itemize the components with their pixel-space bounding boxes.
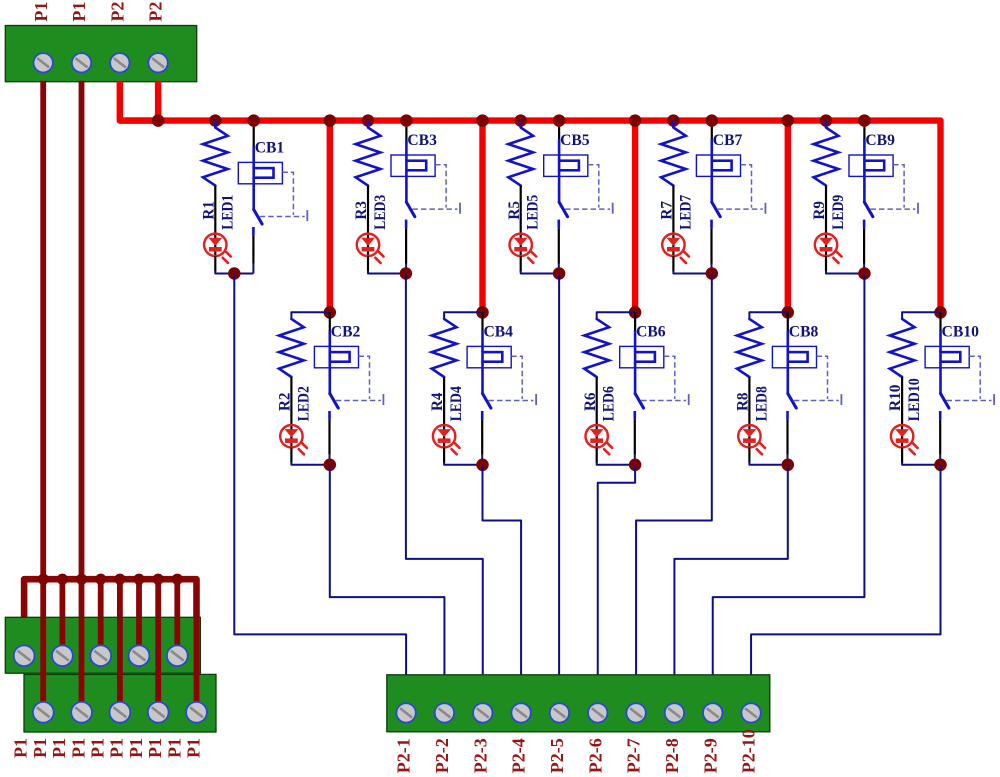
- wire breaker CB3 lower pin: [405, 220, 408, 229]
- wire resistor R8 to LED8: [748, 377, 750, 425]
- terminal block P2 bottom-middle: [387, 675, 770, 732]
- breaker CB10 trip linkage (dashed): [969, 356, 980, 399]
- junction bus to R1: [209, 114, 222, 127]
- wire resistor R9 top pin: [825, 121, 828, 128]
- junction bus to R7: [667, 114, 680, 127]
- wire breaker CB6 lower pin: [633, 411, 636, 420]
- svg-text:CB9: CB9: [865, 132, 895, 149]
- screw terminal P1 lower row 2: [71, 702, 92, 723]
- svg-text:LED9: LED9: [830, 195, 847, 230]
- junction P2 bus feed CB8: [782, 114, 795, 127]
- svg-text:P1: P1: [164, 738, 184, 758]
- screw terminal P2-5: [550, 703, 569, 722]
- LED LED4: [443, 425, 445, 447]
- svg-text:P2-1: P2-1: [394, 738, 414, 773]
- junction P1 bus: [57, 574, 68, 585]
- wire resistor R6 to LED6: [596, 377, 598, 425]
- wire LED6 cathode to junction: [596, 448, 598, 463]
- svg-text:P1: P1: [30, 738, 50, 758]
- wire resistor R4 to LED4: [443, 377, 445, 425]
- svg-text:P1: P1: [145, 738, 165, 758]
- screw terminal P1 lower row 5: [186, 702, 207, 723]
- svg-text:P2-8: P2-8: [662, 738, 682, 773]
- wire breaker CB1 lower pin: [252, 227, 255, 236]
- terminal block P1/P2 top-left: [5, 26, 196, 82]
- wire node to resistor R10: [902, 312, 940, 319]
- wire bus to breaker CB5: [558, 121, 560, 140]
- wire LED8 cathode to junction: [748, 448, 750, 463]
- resistor R1: [203, 128, 228, 186]
- svg-text:CB7: CB7: [713, 132, 743, 149]
- junction P1 bus: [133, 574, 144, 585]
- wire node to P2-5: [558, 274, 560, 676]
- junction node channel 7 output: [706, 267, 719, 280]
- svg-text:P2-5: P2-5: [547, 738, 567, 773]
- wire LED3 cathode to junction: [367, 256, 369, 271]
- junction P1 bus: [38, 574, 49, 585]
- wire resistor R7 to LED7: [672, 186, 674, 234]
- wire node to P2-7: [636, 274, 712, 676]
- wire P1 net: left vertical from top P1 pin1 to bottom-left block: [40, 81, 46, 713]
- wire P1 drop to upper-row screw 3: [98, 579, 104, 656]
- circuit breaker CB2: [314, 346, 358, 367]
- wire LED2 cathode to junction: [290, 448, 292, 463]
- wire resistor R10 to LED10: [901, 377, 903, 425]
- junction P2 bus feed CB4: [476, 114, 489, 127]
- resistor R9: [814, 128, 839, 186]
- svg-text:P1: P1: [126, 738, 146, 758]
- screw terminal P1 (top block pin 2): [72, 53, 91, 72]
- screw terminal P2-1: [396, 703, 415, 722]
- wire node to P2-1: [234, 274, 406, 676]
- junction node top of channel 4: [476, 306, 489, 319]
- wire node to P2-8: [674, 465, 787, 676]
- terminal block P1 bottom-left upper row: [5, 617, 200, 673]
- wire P1 drop to lower-row screw 4: [155, 579, 161, 712]
- resistor R3: [356, 128, 381, 186]
- wire bus to breaker CB3: [405, 121, 407, 140]
- breaker CB7 trip linkage (dashed): [741, 165, 752, 208]
- screw terminal P2-3: [473, 703, 492, 722]
- svg-text:CB8: CB8: [789, 323, 819, 340]
- circuit breaker CB4: [467, 346, 511, 367]
- wire bus to breaker CB9: [863, 121, 865, 140]
- wire P1 segments over blocks: [40, 617, 46, 712]
- breaker CB8 trip linkage (dashed): [817, 356, 828, 399]
- wire breaker CB8 lower pin: [786, 411, 789, 420]
- junction node channel 3 output: [400, 267, 413, 280]
- wire P2 net: stub from top P2 pin4: [155, 81, 161, 121]
- wire node to P2-6: [598, 465, 635, 676]
- junction node channel 2 output: [324, 459, 337, 472]
- wire resistor R1 to LED1: [214, 186, 216, 234]
- junction node top of channel 8: [782, 306, 795, 319]
- svg-text:LED3: LED3: [372, 195, 389, 230]
- wire P2 net: stub from top P2 pin3: [120, 81, 158, 121]
- screw terminal P2 (top block pin 4): [148, 53, 167, 72]
- junction P2 bus feed CB2: [324, 114, 337, 127]
- wire node to P2-4: [483, 465, 522, 676]
- wire breaker CB5 lower pin: [557, 220, 560, 229]
- svg-text:P2-7: P2-7: [624, 738, 644, 773]
- wire bus to breaker CB1: [253, 121, 255, 148]
- wire LED4 cathode to junction: [443, 448, 445, 463]
- junction node channel 9 output: [858, 267, 871, 280]
- breaker CB9 trip linkage (dashed): [893, 165, 904, 208]
- resistor R10: [890, 319, 915, 377]
- breaker CB3 trip linkage (dashed): [435, 165, 446, 208]
- wire P1 drop to upper-row screw 4: [136, 579, 142, 656]
- junction node channel 5 output: [553, 267, 566, 280]
- screw terminal P2-10: [741, 703, 760, 722]
- junction node channel 4 output: [476, 459, 489, 472]
- breaker CB4 trip linkage (dashed): [511, 356, 522, 399]
- svg-text:LED1: LED1: [219, 195, 236, 230]
- wire node to resistor R6: [597, 312, 635, 319]
- circuit breaker CB7: [696, 155, 740, 176]
- screw terminal P2-7: [626, 703, 645, 722]
- circuit breaker CB9: [849, 155, 893, 176]
- wire resistor R5 to LED5: [520, 186, 522, 234]
- wire LED1 cathode to junction: [214, 256, 216, 271]
- junction node channel 6 output: [629, 459, 642, 472]
- svg-text:P1: P1: [107, 738, 127, 758]
- screw terminal P1 upper row 4: [129, 645, 150, 666]
- wire bus to breaker CB7: [711, 121, 713, 140]
- svg-text:CB4: CB4: [484, 323, 514, 340]
- circuit breaker CB1: [238, 162, 282, 183]
- wire resistor R5 top pin: [519, 121, 522, 128]
- svg-text:P2-6: P2-6: [585, 738, 605, 773]
- LED LED10: [901, 425, 903, 447]
- svg-text:P1: P1: [184, 738, 204, 758]
- resistor R6: [584, 319, 609, 377]
- svg-text:P1: P1: [31, 2, 51, 22]
- junction P2 bus at pin4: [152, 114, 165, 127]
- terminal block P1 bottom-left lower row: [24, 674, 216, 732]
- wire P2 net: vertical feed to channel 8: [785, 121, 791, 313]
- screw terminal P1 lower row 4: [148, 702, 169, 723]
- svg-text:P1: P1: [11, 738, 31, 758]
- LED LED3: [367, 234, 369, 256]
- circuit breaker CB10: [925, 346, 969, 367]
- junction P2 bus feed CB6: [629, 114, 642, 127]
- svg-text:LED5: LED5: [525, 195, 542, 230]
- svg-text:P2-4: P2-4: [509, 738, 529, 773]
- LED LED2: [290, 425, 292, 447]
- circuit breaker CB5: [544, 155, 588, 176]
- screw terminal P1 lower row 1: [33, 702, 54, 723]
- wire P1 drop to lower-row screw 3: [117, 579, 123, 712]
- svg-text:P2: P2: [107, 2, 127, 22]
- wire P1 net: bottom distribution bus bar: [24, 579, 196, 712]
- wire LED9 cathode to junction: [825, 256, 827, 271]
- screw terminal P2 (top block pin 3): [110, 53, 129, 72]
- screw terminal P1 upper row 2: [52, 645, 73, 666]
- LED LED9: [825, 234, 827, 256]
- screw terminal P2-8: [665, 703, 684, 722]
- screw terminal P1 upper row 1: [14, 645, 35, 666]
- wire node to resistor R2: [291, 312, 329, 319]
- wire P2 net: vertical feed to channel 6: [632, 121, 638, 313]
- svg-text:CB10: CB10: [942, 323, 980, 340]
- svg-text:LED7: LED7: [677, 195, 694, 230]
- junction bus to CB3: [400, 114, 413, 127]
- wire node to breaker CB4: [481, 312, 483, 331]
- wire node to P2-3: [406, 274, 483, 676]
- wire resistor R1 top pin: [214, 121, 217, 128]
- wire LED10 cathode to junction: [901, 448, 903, 463]
- wire node to P2-9: [713, 274, 865, 676]
- wire P2 net: main horizontal bus: [120, 121, 941, 313]
- svg-text:CB6: CB6: [636, 323, 666, 340]
- circuit breaker CB8: [772, 346, 816, 367]
- breaker CB6 trip linkage (dashed): [664, 356, 675, 399]
- wire breaker CB4 lower pin: [481, 411, 484, 420]
- svg-text:P1: P1: [88, 738, 108, 758]
- resistor R2: [279, 319, 304, 377]
- resistor R5: [508, 128, 533, 186]
- wire node to breaker CB10: [939, 312, 941, 331]
- resistor R7: [661, 128, 686, 186]
- junction P1 bus: [114, 574, 125, 585]
- wire node to P2-10: [751, 465, 940, 676]
- svg-text:LED2: LED2: [295, 386, 312, 421]
- LED LED1: [214, 234, 216, 256]
- junction node channel 1 output: [228, 267, 241, 280]
- resistor R8: [737, 319, 762, 377]
- wire resistor R3 top pin: [367, 121, 370, 128]
- LED LED6: [596, 425, 598, 447]
- junction node top of channel 10: [934, 306, 947, 319]
- junction bus to CB5: [553, 114, 566, 127]
- svg-text:P1: P1: [49, 738, 69, 758]
- junction P1 bus: [95, 574, 106, 585]
- svg-text:LED10: LED10: [906, 378, 923, 421]
- junction P1 bus: [76, 574, 87, 585]
- breaker CB1 trip linkage (dashed): [282, 172, 293, 215]
- junction bus to R9: [820, 114, 833, 127]
- svg-text:CB1: CB1: [255, 139, 285, 156]
- wire resistor R2 to LED2: [290, 377, 292, 425]
- junction bus to R3: [362, 114, 375, 127]
- breaker CB2 trip linkage (dashed): [359, 356, 370, 399]
- wire breaker CB2 lower pin: [328, 411, 331, 420]
- junction bus to R5: [514, 114, 527, 127]
- junction P1 bus: [153, 574, 164, 585]
- wire P2 net: vertical feed to channel 2: [327, 121, 333, 313]
- wire P1 net: second vertical from top P1 pin2 to bottom-left block: [79, 81, 85, 713]
- screw terminal P1 lower row 3: [110, 702, 131, 723]
- screw terminal P2-9: [703, 703, 722, 722]
- resistor R4: [432, 319, 457, 377]
- wire LED5 cathode to junction: [520, 256, 522, 271]
- wire P1 drop to upper-row screw 2: [60, 579, 66, 656]
- wire breaker CB10 lower pin: [939, 411, 942, 420]
- wire node to breaker CB2: [329, 312, 331, 331]
- svg-text:LED8: LED8: [753, 386, 770, 421]
- wire resistor R3 to LED3: [367, 186, 369, 234]
- screw terminal P1 upper row 3: [90, 645, 111, 666]
- wire node to P2-2: [330, 465, 445, 676]
- junction node channel 8 output: [782, 459, 795, 472]
- wire node to resistor R4: [444, 312, 482, 319]
- wire LED7 cathode to junction: [672, 256, 674, 271]
- junction node channel 10 output: [934, 459, 947, 472]
- LED LED7: [672, 234, 674, 256]
- svg-text:P1: P1: [69, 2, 89, 22]
- wire node to breaker CB6: [634, 312, 636, 331]
- wire P2 net: vertical feed to channel 4: [479, 121, 485, 313]
- screw terminal P2-2: [435, 703, 454, 722]
- svg-text:CB2: CB2: [331, 323, 361, 340]
- svg-text:P2-10: P2-10: [739, 729, 759, 773]
- junction P1 bus: [172, 574, 183, 585]
- LED LED8: [748, 425, 750, 447]
- wire node to breaker CB8: [787, 312, 789, 331]
- junction node top of channel 2: [324, 306, 337, 319]
- svg-text:P2-2: P2-2: [432, 738, 452, 773]
- svg-text:LED6: LED6: [601, 386, 618, 421]
- svg-text:P2-3: P2-3: [470, 738, 490, 773]
- screw terminal P1 upper row 5: [167, 645, 188, 666]
- circuit breaker CB3: [391, 155, 435, 176]
- breaker CB5 trip linkage (dashed): [588, 165, 599, 208]
- svg-text:LED4: LED4: [448, 386, 465, 421]
- junction bus to CB1: [247, 114, 260, 127]
- svg-text:CB5: CB5: [560, 132, 590, 149]
- junction bus to CB7: [706, 114, 719, 127]
- wire resistor R9 to LED9: [825, 186, 827, 234]
- junction bus to CB9: [858, 114, 871, 127]
- wire resistor R7 top pin: [672, 121, 675, 128]
- svg-text:P1: P1: [68, 738, 88, 758]
- junction node top of channel 6: [629, 306, 642, 319]
- LED LED5: [520, 234, 522, 256]
- svg-text:P2: P2: [146, 2, 166, 22]
- wire breaker CB9 lower pin: [863, 220, 866, 229]
- screw terminal P1 (top block pin 1): [34, 53, 53, 72]
- screw terminal P2-6: [588, 703, 607, 722]
- wire breaker CB7 lower pin: [710, 220, 713, 229]
- wire node to resistor R8: [749, 312, 787, 319]
- svg-text:P2-9: P2-9: [700, 738, 720, 773]
- svg-text:CB3: CB3: [407, 132, 437, 149]
- wire P1 drop to upper-row screw 5: [174, 579, 180, 656]
- screw terminal P2-4: [511, 703, 530, 722]
- circuit breaker CB6: [620, 346, 664, 367]
